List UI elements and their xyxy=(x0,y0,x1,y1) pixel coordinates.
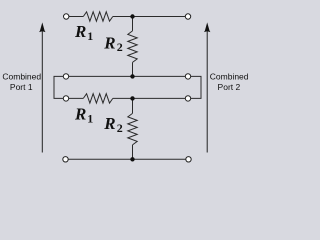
svg-text:1: 1 xyxy=(87,29,93,43)
svg-text:2: 2 xyxy=(117,40,123,54)
svg-text:Port 2: Port 2 xyxy=(218,82,241,92)
svg-text:1: 1 xyxy=(87,111,93,125)
svg-text:Combined: Combined xyxy=(210,72,249,82)
svg-text:R: R xyxy=(103,114,115,133)
svg-text:2: 2 xyxy=(117,121,123,135)
svg-text:R: R xyxy=(74,105,86,124)
svg-text:Port 1: Port 1 xyxy=(10,82,33,92)
svg-text:Combined: Combined xyxy=(2,72,41,82)
svg-text:R: R xyxy=(74,22,86,41)
svg-text:R: R xyxy=(103,33,115,52)
